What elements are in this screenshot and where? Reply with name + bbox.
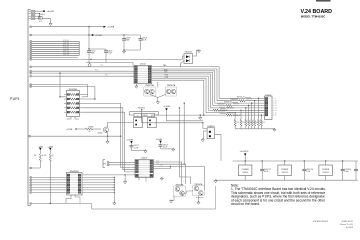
- resistor R22 series: [208, 109, 264, 112]
- svg-text:POWER: POWER: [242, 169, 250, 171]
- transistor Q5 label: [145, 84, 154, 87]
- wire +5VB pin stub: [39, 11, 43, 17]
- resistor R23 series: [206, 112, 265, 115]
- node title V.24 BOARD: [301, 9, 333, 15]
- wire bottom long right: [92, 186, 216, 209]
- wire long row q: [31, 136, 122, 137]
- node +5.0VB c6: [127, 139, 134, 143]
- svg-text:+12VB: +12VB: [95, 35, 102, 37]
- diode DS1/DS2: [184, 52, 193, 64]
- wire opto feeds: [138, 115, 159, 116]
- svg-text:L1/L3: L1/L3: [40, 14, 45, 16]
- wire Q1 collector: [108, 123, 134, 128]
- wire U1 out2: [152, 69, 218, 101]
- node +5.0VB c8: [156, 139, 163, 143]
- connector P5/P7: [103, 160, 109, 168]
- wire U3 out d: [153, 166, 170, 168]
- svg-text:4–12: 4–12: [273, 105, 277, 107]
- wire bank gnd rail: [235, 128, 274, 130]
- wire Q1 emitter: [107, 132, 108, 141]
- wire DS1 left top: [182, 56, 184, 59]
- wire Q9 gnd: [171, 196, 174, 201]
- svg-text:P1/P3: P1/P3: [10, 97, 19, 101]
- node +5.0VDC: [240, 151, 249, 156]
- resistor R15/R16 block: [129, 112, 158, 117]
- svg-text:3–11: 3–11: [273, 103, 276, 105]
- connector pin row4: [30, 70, 32, 72]
- transistor Q6 label: [167, 84, 176, 87]
- wire Q10 link: [180, 191, 193, 193]
- opto-coupler U5/U7: [147, 116, 156, 128]
- connector P2/P4: [265, 95, 277, 120]
- power module U13/U14: [319, 161, 333, 180]
- ground DS1: [197, 49, 200, 52]
- svg-text:R18/26 47: R18/26 47: [231, 99, 238, 101]
- resistor RP7 pulldown: [257, 98, 262, 129]
- svg-text:2.2uF: 2.2uF: [134, 147, 138, 149]
- node subtitle: [301, 15, 326, 19]
- wire Q10 gnd: [198, 195, 200, 202]
- resistor R18 series: [217, 99, 265, 102]
- svg-text:+5.0VDC: +5.0VDC: [240, 151, 249, 153]
- svg-text:1k: 1k: [52, 155, 54, 157]
- node U1 out labels: [163, 64, 169, 79]
- svg-text:R13/R14: R13/R14: [138, 107, 145, 109]
- transistor Q6/Q8: [165, 87, 176, 96]
- diode DS3/DS4: [207, 126, 215, 138]
- wire +5VB mid drop: [167, 111, 203, 121]
- svg-text:R17/25 47: R17/25 47: [237, 97, 244, 99]
- svg-text:U11/U12: U11/U12: [282, 172, 288, 174]
- resistor network RN3/RN4: [67, 171, 83, 195]
- svg-text:Q1/Q3: Q1/Q3: [98, 133, 103, 135]
- wire c8 gnd: [161, 148, 174, 150]
- node U3 out labels: [156, 160, 163, 167]
- svg-text:CTS: CTS: [160, 165, 163, 167]
- ground +12 caps: [122, 50, 125, 53]
- svg-text:POWER: POWER: [322, 169, 330, 171]
- opto-coupler U4/U6: [134, 116, 143, 128]
- svg-text:2N2222A: 2N2222A: [145, 84, 154, 87]
- wire row5: [32, 72, 134, 74]
- wire U1 out1: [152, 67, 220, 99]
- wire +12VB rail: [32, 34, 141, 35]
- svg-text:POWER: POWER: [281, 169, 289, 171]
- svg-text:DTR 108: DTR 108: [63, 40, 69, 42]
- transistor Q1/Q3: [98, 127, 109, 135]
- node +5.0VB Q1: [66, 128, 78, 131]
- svg-text:TXD 103: TXD 103: [63, 42, 69, 44]
- capacitor C11 0.1uF: [260, 161, 271, 180]
- wire U1 out8: [152, 80, 204, 115]
- wire U1 out5: [152, 74, 211, 108]
- wire RN2 right bus: [82, 177, 115, 193]
- wire row1: [32, 57, 78, 59]
- svg-text:R32: R32: [263, 122, 266, 124]
- svg-text:R1: R1: [34, 155, 36, 157]
- svg-text:1k: 1k: [89, 131, 91, 133]
- transistor Q5/Q7: [144, 87, 155, 96]
- connector pin +5VB rail: [30, 26, 32, 28]
- svg-text:0.1uF: 0.1uF: [344, 171, 348, 173]
- svg-text:circuit on the board.: circuit on the board.: [231, 202, 260, 206]
- connector pin row2: [30, 58, 32, 60]
- svg-text:U9/U10: U9/U10: [242, 172, 248, 174]
- connector pin bottom long: [30, 203, 32, 205]
- wire row6: [32, 75, 134, 77]
- svg-text:R20/28 47: R20/28 47: [218, 104, 225, 106]
- connector pin row6: [30, 75, 32, 77]
- node +5.0VB mid: [164, 106, 171, 111]
- svg-text:0.1uF: 0.1uF: [163, 147, 167, 149]
- ground Q10: [197, 201, 200, 204]
- wire RN1 to U3 bus b: [82, 108, 135, 170]
- ground 125: [124, 180, 127, 183]
- wire Q10 top feed: [180, 177, 191, 184]
- svg-text:6–14: 6–14: [273, 110, 277, 112]
- svg-text:2N2907A: 2N2907A: [167, 84, 176, 87]
- svg-text:MODEL TTM4010C: MODEL TTM4010C: [301, 15, 326, 19]
- connector pins P1 top group: [28, 10, 40, 20]
- svg-text:65P63672/06-F: 65P63672/06-F: [313, 221, 329, 223]
- wire U3 out c: [153, 166, 204, 190]
- resistor RP1 pulldown: [234, 112, 239, 129]
- wire U1 out4: [152, 72, 213, 105]
- svg-text:DCD 109: DCD 109: [63, 52, 69, 54]
- svg-text:R19/27 47: R19/27 47: [224, 101, 231, 103]
- wire bead feed: [40, 14, 41, 19]
- svg-text:1–9: 1–9: [273, 98, 276, 100]
- wire pairs common: [150, 82, 167, 102]
- resistor R2/R4: [44, 150, 53, 203]
- node +12VB: [92, 34, 102, 37]
- wire DS3 right: [215, 135, 221, 161]
- svg-text:R-2003: R-2003: [346, 227, 354, 229]
- resistor RP5 pulldown: [251, 102, 256, 128]
- ground DS3: [201, 138, 204, 141]
- ground U3 right: [160, 177, 163, 180]
- wire RN2 bottom loop: [66, 195, 80, 204]
- op-amp U1/U2 line driver: [134, 64, 152, 84]
- svg-text:+5.0VB: +5.0VB: [66, 129, 73, 131]
- svg-text:R15/R16: R15/R16: [141, 115, 148, 117]
- svg-text:JUNE 30/70: JUNE 30/70: [341, 221, 354, 223]
- svg-text:R21/29 47: R21/29 47: [227, 108, 234, 110]
- inductor L1/L3: [39, 14, 45, 23]
- svg-text:RXD 104: RXD 104: [63, 44, 69, 46]
- wire bus bundle P1 data: [30, 40, 79, 56]
- wire RN2 top row: [82, 174, 135, 175]
- connector pin row q: [29, 135, 31, 137]
- wire fan drop A: [179, 107, 180, 177]
- svg-text:CTS 106: CTS 106: [63, 48, 69, 50]
- svg-text:+5.0VB: +5.0VB: [47, 11, 55, 13]
- svg-text:U13/U14: U13/U14: [323, 172, 329, 174]
- svg-text:+5.0VB: +5.0VB: [156, 139, 163, 141]
- resistor RP3 pulldown: [245, 107, 250, 129]
- wire U1 out7: [152, 78, 207, 113]
- wire U1 bottom gnd: [135, 84, 137, 86]
- wire DS3 left gnd: [204, 131, 208, 139]
- wire RN1 feed: [59, 72, 66, 97]
- transistor Q9/Q11: [174, 186, 186, 196]
- connector pin +12VB rail: [30, 34, 32, 36]
- wire RN1 to U3 bus c: [82, 112, 135, 172]
- wire RN1 right top: [82, 95, 88, 97]
- wire C1 drop: [88, 27, 106, 50]
- wire +12 cap rail: [123, 49, 140, 50]
- transistor Q9 label: [175, 184, 184, 187]
- resistor RP8 pulldown: [260, 114, 265, 128]
- node note text: [231, 184, 326, 207]
- wire gnd drop 125: [124, 175, 126, 181]
- svg-text:0.1uF: 0.1uF: [142, 39, 146, 41]
- svg-text:5–13: 5–13: [273, 108, 277, 110]
- resistor R20 series: [213, 104, 265, 107]
- connector pin row5: [30, 72, 32, 74]
- svg-text:R25: R25: [237, 122, 240, 124]
- wire RN1 to U3 bus a: [82, 103, 135, 167]
- wire U1 out6: [152, 76, 209, 110]
- connector pin row8: [30, 86, 32, 88]
- resistor R5/R6 1k: [78, 127, 101, 133]
- svg-text:8–16: 8–16: [273, 115, 277, 117]
- wire row8 left ext: [159, 114, 205, 115]
- wire row3: [32, 65, 134, 67]
- svg-text:+5.0VB: +5.0VB: [107, 27, 115, 29]
- connector pin row7: [30, 84, 32, 86]
- ground power rail: [214, 179, 217, 182]
- wire P1 pin bracket: [28, 10, 31, 206]
- capacitor C1/C2 33uF: [87, 49, 95, 63]
- wire +5 cap rail: [86, 63, 133, 66]
- resistor RP6 pulldown: [254, 100, 259, 129]
- wire U3 out b: [153, 164, 185, 184]
- wire P5 to U3 a: [109, 161, 135, 163]
- capacitor C5/C8 0.1uF: [139, 35, 147, 50]
- resistor R1/R3: [34, 150, 43, 168]
- capacitor C2/C5 0.1uF: [104, 49, 112, 63]
- wire power rail bottom: [216, 179, 358, 181]
- svg-text:7–15: 7–15: [273, 112, 277, 114]
- resistor network RN1/RN2: [64, 89, 82, 117]
- svg-text:2.2uF: 2.2uF: [306, 171, 310, 173]
- svg-text:R24/32 47: R24/32 47: [233, 115, 240, 117]
- wire DS1 left bot: [181, 61, 184, 68]
- svg-text:E1: E1: [39, 21, 41, 23]
- node +12VB R2: [48, 146, 54, 150]
- ground c8: [172, 148, 175, 151]
- power module U9/U10: [238, 161, 252, 180]
- wire bead to gnd: [42, 19, 50, 23]
- wire U3 out a: [153, 162, 181, 186]
- capacitor C8/C9 0.1uF: [159, 143, 168, 149]
- wire c6 gnd: [132, 150, 146, 152]
- connector pin row3: [30, 66, 32, 68]
- node title smudge: [316, 0, 331, 2]
- ground c6: [144, 150, 147, 153]
- ground 114: [113, 202, 116, 205]
- svg-text:R2: R2: [44, 155, 46, 157]
- wire gnd drop 114: [113, 177, 115, 202]
- node +12VB R1: [38, 146, 44, 150]
- ground circle +5 rail: [88, 63, 91, 67]
- wire bottom bundle: [30, 176, 67, 193]
- transistor Q10/Q12: [193, 185, 205, 195]
- wire RN1 right bus: [82, 98, 96, 99]
- node doc number: [313, 221, 354, 229]
- wire fan drop B: [184, 102, 185, 164]
- ground Q9: [169, 200, 172, 203]
- wire row7: [32, 85, 88, 97]
- capacitor C13 2.2uF: [302, 161, 313, 180]
- wire R1 to pin: [30, 167, 41, 169]
- wire Q pair bottoms: [196, 197, 204, 199]
- resistor RP4 pulldown: [248, 105, 253, 129]
- resistor R19 series: [215, 101, 265, 104]
- wire bottom long left: [32, 203, 92, 204]
- wire row2: [32, 59, 183, 60]
- connector P1/P3 label: [10, 97, 19, 101]
- capacitor C3/C6 33uF: [122, 35, 130, 50]
- wire row4: [32, 70, 134, 72]
- ground U1: [135, 85, 138, 88]
- svg-text:GND 102: GND 102: [63, 54, 69, 56]
- ground top-left: [49, 22, 52, 25]
- wire DS3 top: [203, 123, 211, 129]
- wire row8: [32, 87, 95, 100]
- wire DS1 right: [193, 50, 200, 56]
- wire P5 to U3 b: [109, 164, 135, 166]
- svg-text:0.1uF: 0.1uF: [264, 171, 268, 173]
- wire +5.0VB rail: [32, 26, 104, 27]
- ground Q1: [106, 140, 109, 143]
- ground pairs: [156, 101, 159, 104]
- svg-text:0.1uF: 0.1uF: [108, 52, 112, 54]
- capacitor C17 0.1uF: [354, 161, 358, 180]
- node +5.0VB top: [43, 10, 54, 13]
- resistor R13/R14: [138, 107, 145, 111]
- wire lamp line2: [142, 112, 204, 124]
- wire power rail top: [233, 160, 359, 161]
- resistor R24 series: [204, 114, 265, 117]
- wire +5VDC drop: [244, 156, 246, 161]
- ground resistor bank: [273, 128, 276, 131]
- node bus net names: [63, 40, 69, 56]
- svg-text:RTS 105: RTS 105: [63, 46, 69, 48]
- svg-text:33uF: 33uF: [126, 39, 130, 41]
- capacitor C6/C7 2.2uF: [130, 144, 139, 151]
- ground fan row stub: [199, 114, 202, 119]
- resistor R17 series: [219, 97, 264, 100]
- resistor R21 series: [210, 107, 264, 110]
- wire RN1 bottom pins: [67, 117, 80, 120]
- svg-text:2–10: 2–10: [273, 100, 277, 102]
- svg-text:DSR 107: DSR 107: [63, 50, 69, 52]
- capacitor C15 0.1uF: [341, 161, 352, 180]
- svg-text:V.24 BOARD: V.24 BOARD: [301, 9, 333, 15]
- svg-text:33uF: 33uF: [91, 52, 95, 54]
- svg-text:(Sheet 2 of 2): (Sheet 2 of 2): [340, 223, 354, 226]
- power module U11/U12: [278, 161, 292, 180]
- op-amp U3/U5 receiver: [135, 158, 153, 178]
- transistor Q10 label: [194, 183, 203, 186]
- resistor RP2 pulldown: [240, 110, 245, 129]
- wire U3 bottom pins: [139, 177, 146, 181]
- wire U1 out3: [152, 71, 215, 103]
- connector pin row1: [30, 57, 32, 59]
- svg-text:+5.0VB: +5.0VB: [164, 106, 171, 108]
- node +5.0VB arrow: [104, 26, 115, 29]
